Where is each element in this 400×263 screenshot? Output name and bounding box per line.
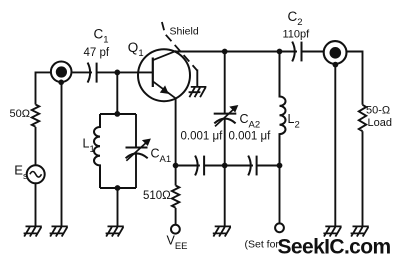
wire input left segment to 50-ohm source resistor <box>36 72 51 104</box>
svg-text:50Ω: 50Ω <box>10 108 30 120</box>
wire connector J1 to C1 <box>72 71 92 73</box>
svg-text:50-Ω: 50-Ω <box>366 105 390 117</box>
svg-text:110pf: 110pf <box>283 29 311 41</box>
node tank bottom <box>115 185 121 191</box>
wire C1 to Q1 base <box>97 71 153 73</box>
svg-text:47 pf: 47 pf <box>84 47 110 59</box>
svg-text:Q1: Q1 <box>128 40 144 59</box>
wire resistor to Es source <box>35 127 37 165</box>
capacitor bypass 0.001uf right <box>248 156 256 176</box>
svg-text:VEE: VEE <box>167 234 188 253</box>
resistor 510ohm <box>172 186 179 208</box>
wire lower rail left <box>176 165 200 167</box>
wire connector J1 bottom to ground <box>61 83 63 226</box>
wire shield stem <box>196 70 198 87</box>
ground under J1 <box>50 226 68 236</box>
wire mid junction to ground <box>224 166 226 227</box>
svg-text:0.001 μf: 0.001 μf <box>229 131 272 143</box>
wire tank bottom rail <box>100 187 136 189</box>
wire C2 to connector J2 <box>302 51 324 53</box>
node tank top <box>114 111 120 117</box>
node C1-base junction <box>114 70 120 76</box>
svg-text:(Set for: (Set for <box>245 239 280 251</box>
svg-text:Shield: Shield <box>170 26 199 38</box>
connector J2 output jack <box>324 41 347 67</box>
node rail CA2 <box>222 49 228 55</box>
wire J2 right to load <box>347 52 363 105</box>
capacitor C1 47pf <box>88 63 97 83</box>
svg-text:C2: C2 <box>288 9 303 28</box>
ground under Es <box>24 226 42 236</box>
svg-text:L1: L1 <box>83 137 95 156</box>
capacitor CA1 variable <box>126 139 151 161</box>
resistor 50ohm source <box>32 105 39 127</box>
wire between bypass caps <box>204 165 253 167</box>
svg-text:CA1: CA1 <box>151 147 172 166</box>
wire 510 to VEE terminal <box>175 208 177 225</box>
terminal VEE <box>171 225 180 234</box>
svg-text:510Ω: 510Ω <box>143 190 171 202</box>
svg-text:0.001 μf: 0.001 μf <box>181 131 224 143</box>
inductor L2 <box>280 52 286 166</box>
resistor 50ohm load <box>359 105 366 131</box>
inductor L1 <box>94 114 100 188</box>
ground shield <box>189 87 207 97</box>
source Es (sine generator) <box>27 165 45 183</box>
wire junction down to tank top <box>116 72 118 114</box>
wire junction to 510 resistor <box>175 166 177 186</box>
node rail L2 <box>277 49 283 55</box>
capacitor CA2 variable <box>214 105 239 126</box>
wire tank top rail <box>100 113 136 115</box>
node emitter junction <box>173 163 179 169</box>
ground under tank <box>106 226 124 236</box>
transistor Q1 <box>138 49 190 101</box>
connector J1 input jack <box>51 62 72 86</box>
wire tank right branch upper <box>135 114 137 147</box>
terminal output set <box>275 223 284 232</box>
wire Es to ground <box>35 183 37 226</box>
svg-text:SeekIC.com: SeekIC.com <box>278 236 391 259</box>
svg-text:Es: Es <box>14 163 28 183</box>
capacitor bypass 0.001uf left <box>195 156 204 176</box>
svg-text:CA2: CA2 <box>240 112 261 131</box>
wire L2 junction to output terminal <box>279 166 281 224</box>
svg-text:Load: Load <box>368 117 392 129</box>
node L2 bottom <box>277 163 283 169</box>
wire load to ground <box>362 131 364 226</box>
wire connector J2 bottom to ground <box>334 66 336 226</box>
svg-text:C1: C1 <box>94 27 109 46</box>
ground under lower rail <box>213 226 231 236</box>
wire CA1 bottom to tank bottom <box>135 153 137 188</box>
wire CA2 to lower rail <box>224 119 226 166</box>
dashed shield line <box>162 22 197 71</box>
wire to L2 bottom junction <box>257 165 280 167</box>
ground under load <box>351 226 369 236</box>
capacitor C2 110pf <box>292 42 301 62</box>
wire collector top rail <box>175 51 297 53</box>
ground under J2 <box>323 226 341 236</box>
wire rail down to CA2 <box>224 52 226 114</box>
wire tank bottom to ground <box>117 188 119 226</box>
svg-text:L2: L2 <box>288 112 300 131</box>
wire emitter down <box>175 98 177 165</box>
node lower rail mid <box>222 163 228 169</box>
